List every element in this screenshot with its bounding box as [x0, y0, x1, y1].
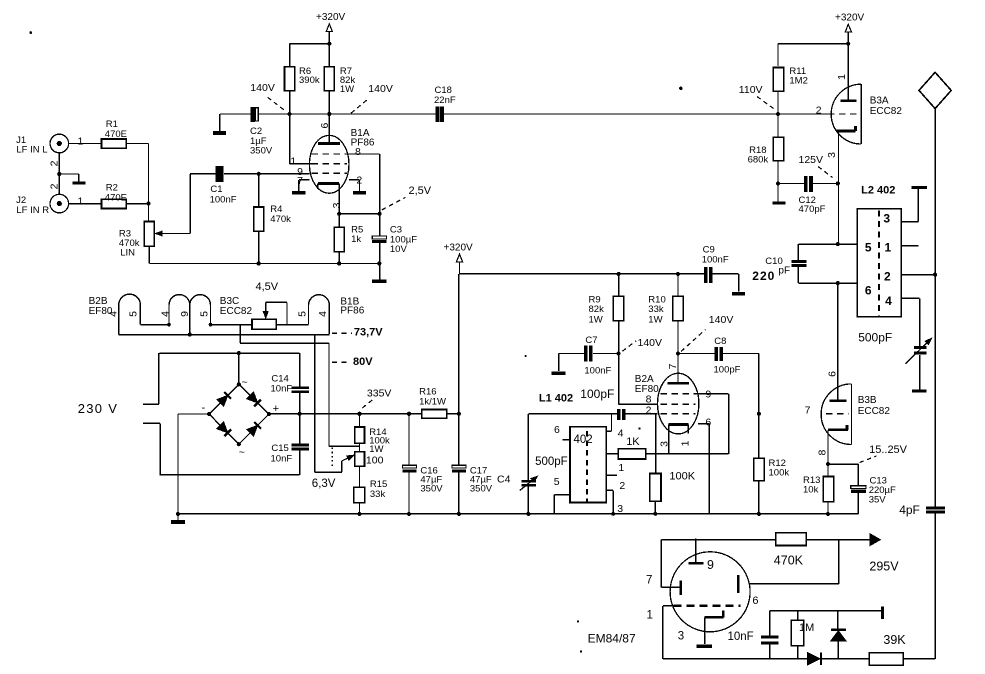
svg-text:500pF: 500pF [858, 331, 892, 345]
svg-text:3: 3 [826, 152, 838, 158]
svg-text:1M: 1M [799, 622, 814, 634]
svg-text:6: 6 [554, 424, 560, 436]
svg-text:125V: 125V [799, 154, 824, 166]
svg-text:295V: 295V [869, 560, 899, 574]
svg-text:470K: 470K [774, 554, 804, 568]
svg-text:3: 3 [617, 503, 623, 515]
svg-text:350V: 350V [420, 484, 443, 495]
svg-text:140V: 140V [250, 82, 275, 94]
svg-text:35V: 35V [869, 495, 887, 506]
svg-text:9: 9 [179, 311, 191, 317]
svg-text:C7: C7 [585, 335, 597, 346]
svg-text:L1 402: L1 402 [539, 392, 573, 404]
svg-text:1W: 1W [369, 444, 383, 455]
svg-text:3: 3 [658, 441, 670, 447]
svg-text:4: 4 [108, 311, 120, 317]
svg-text:10k: 10k [803, 484, 819, 495]
svg-text:1K: 1K [626, 436, 640, 448]
svg-text:140V: 140V [638, 337, 663, 349]
svg-text:pF: pF [778, 266, 790, 277]
svg-text:350V: 350V [470, 484, 493, 495]
svg-text:6: 6 [826, 371, 838, 377]
svg-text:1: 1 [618, 462, 624, 474]
svg-text:100pF: 100pF [714, 364, 741, 375]
svg-text:402: 402 [574, 434, 593, 446]
svg-text:80V: 80V [353, 356, 373, 368]
svg-text:1W: 1W [648, 314, 662, 325]
svg-text:500pF: 500pF [535, 456, 568, 468]
svg-text:B3A: B3A [870, 96, 889, 107]
svg-text:2,5V: 2,5V [409, 185, 432, 197]
svg-text:5: 5 [198, 311, 210, 317]
svg-text:39K: 39K [883, 633, 906, 647]
svg-text:B3C: B3C [220, 296, 239, 307]
svg-text:100nF: 100nF [702, 254, 729, 265]
svg-text:EM84/87: EM84/87 [588, 632, 636, 646]
svg-text:L2 402: L2 402 [861, 184, 895, 196]
svg-text:1: 1 [885, 241, 892, 255]
svg-text:PF86: PF86 [340, 306, 364, 317]
svg-text:5: 5 [296, 311, 308, 317]
svg-text:4: 4 [618, 427, 624, 439]
svg-text:C8: C8 [714, 336, 726, 347]
svg-text:140V: 140V [368, 83, 393, 95]
svg-text:-: - [202, 402, 206, 414]
svg-text:ECC82: ECC82 [858, 406, 891, 417]
svg-text:3: 3 [883, 212, 890, 226]
svg-text:470k: 470k [270, 214, 291, 225]
svg-text:220: 220 [752, 269, 775, 283]
svg-text:ECC82: ECC82 [220, 306, 253, 317]
svg-text:350V: 350V [250, 145, 273, 156]
svg-text:6: 6 [705, 417, 711, 429]
svg-text:470E: 470E [105, 129, 127, 140]
svg-text:2: 2 [816, 105, 822, 117]
svg-text:4: 4 [317, 311, 329, 317]
svg-text:1: 1 [78, 195, 84, 207]
svg-text:3: 3 [678, 631, 684, 643]
svg-text:3: 3 [331, 202, 343, 208]
svg-text:C4: C4 [497, 474, 511, 486]
svg-text:6: 6 [319, 123, 331, 129]
svg-text:22nF: 22nF [434, 95, 456, 106]
svg-text:1: 1 [290, 156, 296, 168]
svg-text:2: 2 [619, 480, 625, 492]
svg-text:100k: 100k [769, 467, 790, 478]
svg-text:~: ~ [242, 377, 248, 389]
svg-text:LF IN R: LF IN R [16, 205, 49, 216]
svg-text:110V: 110V [739, 84, 763, 96]
svg-text:B2B: B2B [89, 296, 108, 307]
svg-text:6: 6 [752, 595, 758, 607]
svg-text:4: 4 [885, 294, 892, 308]
svg-text:100K: 100K [669, 471, 695, 483]
svg-text:2: 2 [646, 404, 652, 416]
svg-text:7: 7 [805, 405, 811, 417]
svg-text:1k/1W: 1k/1W [419, 397, 446, 408]
svg-text:1: 1 [78, 135, 84, 147]
svg-text:100nF: 100nF [584, 365, 611, 376]
svg-text:8: 8 [816, 450, 828, 456]
svg-text:100nF: 100nF [210, 195, 237, 206]
svg-text:1k: 1k [351, 234, 361, 245]
svg-text:+320V: +320V [316, 12, 346, 23]
svg-text:B3B: B3B [858, 395, 877, 406]
svg-text:~: ~ [239, 447, 245, 459]
svg-text:6,3V: 6,3V [312, 478, 336, 490]
svg-text:2: 2 [48, 160, 60, 166]
svg-text:5: 5 [865, 241, 872, 255]
svg-text:390k: 390k [299, 75, 320, 86]
svg-text:1W: 1W [589, 314, 603, 325]
svg-text:1W: 1W [340, 84, 354, 95]
svg-text:6: 6 [865, 284, 872, 298]
svg-text:4: 4 [159, 311, 171, 317]
svg-text:R15: R15 [370, 479, 387, 490]
svg-text:680k: 680k [748, 154, 769, 165]
svg-text:+320V: +320V [835, 12, 865, 23]
svg-text:5: 5 [554, 476, 560, 488]
svg-text:8: 8 [355, 146, 361, 158]
svg-text:470pF: 470pF [799, 204, 826, 215]
svg-text:ECC82: ECC82 [870, 106, 903, 117]
svg-text:LIN: LIN [120, 248, 135, 259]
svg-text:15..25V: 15..25V [869, 444, 908, 456]
svg-text:9: 9 [707, 558, 714, 572]
svg-text:C15: C15 [271, 443, 288, 454]
svg-text:LF IN L: LF IN L [16, 145, 47, 156]
svg-text:230 V: 230 V [78, 401, 118, 416]
svg-text:C18: C18 [435, 85, 452, 96]
svg-text:100pF: 100pF [580, 387, 614, 401]
svg-text:C1: C1 [210, 184, 222, 195]
svg-text:4pF: 4pF [899, 503, 920, 517]
svg-text:9: 9 [705, 389, 711, 401]
svg-text:7: 7 [667, 363, 679, 369]
svg-text:335V: 335V [367, 388, 392, 400]
svg-text:4,5V: 4,5V [256, 281, 279, 293]
svg-text:2: 2 [48, 183, 60, 189]
svg-text:10nF: 10nF [271, 454, 293, 465]
svg-text:+320V: +320V [444, 243, 474, 254]
svg-text:100: 100 [366, 454, 384, 466]
svg-text:10V: 10V [390, 244, 408, 255]
svg-text:7: 7 [297, 175, 303, 187]
svg-text:1M2: 1M2 [789, 75, 807, 86]
svg-text:73,7V: 73,7V [354, 327, 383, 339]
svg-text:470E: 470E [105, 192, 127, 203]
svg-text:2: 2 [884, 270, 891, 284]
svg-text:1: 1 [679, 440, 691, 446]
svg-text:33k: 33k [370, 489, 386, 500]
svg-text:5: 5 [127, 311, 139, 317]
svg-text:10nF: 10nF [728, 631, 754, 643]
svg-text:1: 1 [647, 610, 653, 622]
svg-text:7: 7 [646, 575, 652, 587]
svg-text:2: 2 [356, 174, 362, 186]
svg-text:140V: 140V [709, 314, 734, 326]
svg-text:10nF: 10nF [271, 383, 293, 394]
svg-text:1: 1 [836, 74, 848, 80]
